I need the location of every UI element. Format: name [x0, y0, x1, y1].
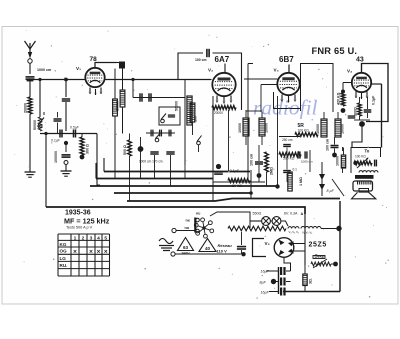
- label 16uF c: [261, 291, 270, 295]
- svg-text:10000: 10000: [316, 124, 320, 134]
- ground x66: [61, 165, 72, 176]
- junction node A: [64, 78, 68, 82]
- wire loop right: [213, 53, 242, 110]
- junction filter dot: [271, 279, 276, 284]
- terminal in1: [172, 228, 196, 232]
- wire x213 drop: [212, 96, 214, 201]
- resistor x290 vert: [288, 172, 292, 191]
- label 1M vert: [299, 177, 303, 186]
- junction T2 bottom: [332, 153, 337, 158]
- svg-text:250 cm: 250 cm: [282, 138, 293, 142]
- wire x115 lower: [114, 116, 116, 178]
- svg-text:6V. 0,3A: 6V. 0,3A: [284, 212, 298, 216]
- wire x154 drop: [154, 155, 156, 178]
- capacitor x66 lower: [62, 155, 71, 157]
- svg-text:300Ω: 300Ω: [354, 107, 358, 116]
- electrolytic 8uF: [319, 162, 335, 196]
- wire row y133: [40, 133, 97, 135]
- svg-text:6B7: 6B7: [279, 55, 294, 64]
- svg-text:500 KΩ: 500 KΩ: [283, 157, 295, 161]
- tube 78 (V1): [85, 68, 104, 87]
- capacitor pair bottom left: [298, 151, 313, 163]
- speaker cone: [352, 192, 376, 199]
- svg-text:To: To: [365, 149, 370, 154]
- capacitor 6A7 bias: [214, 172, 223, 174]
- box tone: [351, 148, 381, 174]
- label V5: [265, 241, 270, 246]
- wire x310 drop: [309, 150, 311, 172]
- svg-text:8µF: 8µF: [260, 281, 267, 285]
- box V5 left: [253, 239, 267, 257]
- bus y207: [46, 207, 305, 214]
- svg-text:16µF: 16µF: [261, 291, 270, 295]
- wire x133 drop: [132, 80, 134, 98]
- wire bus y80 mid: [105, 79, 212, 81]
- filter capacitor C3 16uF: [269, 288, 286, 296]
- wire tube78 top lead: [95, 63, 116, 68]
- svg-text:6A7: 6A7: [215, 55, 230, 64]
- junction 43 low: [341, 108, 346, 113]
- label Beur: [315, 254, 325, 259]
- tube 6A7 pins: [215, 96, 233, 104]
- junction 43 cathode: [359, 121, 365, 127]
- antenna terminal: [28, 59, 32, 63]
- label 6A7: [215, 55, 230, 64]
- scan speckles: [14, 30, 388, 299]
- svg-text:×: ×: [73, 248, 77, 255]
- wire bus y80 left: [33, 79, 86, 81]
- wire 6A7 grid lead: [224, 64, 226, 73]
- svg-text:radiofil: radiofil: [253, 96, 318, 120]
- wire x277 drop: [277, 96, 279, 186]
- svg-text:V₁: V₁: [76, 66, 81, 71]
- svg-text:3Ω.: 3Ω.: [309, 278, 313, 284]
- output transformer secondary: [358, 181, 371, 185]
- svg-text:1935-36: 1935-36: [65, 210, 91, 217]
- resistor feedback label: [336, 156, 340, 166]
- capacitor 43 bypass: [364, 95, 376, 112]
- grid cap blob: [116, 62, 125, 69]
- wire x248 drop: [248, 64, 253, 179]
- label MF 125kHz: [64, 217, 110, 226]
- switch bar: [194, 218, 196, 233]
- rheostat: [311, 259, 338, 268]
- svg-text:10000: 10000: [238, 123, 242, 133]
- resistor 50000 left: [33, 117, 42, 131]
- wire lamp2 out: [281, 221, 288, 226]
- wire x287: [286, 148, 288, 183]
- svg-text:Бекр: Бекр: [315, 254, 325, 259]
- capacitor heater: [237, 232, 246, 256]
- svg-text:V₁ V₂ V₃: V₁ V₂ V₃: [302, 231, 312, 235]
- wire row y97: [133, 97, 185, 99]
- label 550: [253, 212, 262, 216]
- capacitor 0.1uF row: [51, 130, 62, 143]
- wire into 6B7 y79: [244, 78, 278, 80]
- switch S4: [197, 136, 202, 153]
- label reseau: [217, 243, 233, 254]
- resistor 500k avc: [279, 153, 301, 161]
- svg-text:40: 40: [205, 246, 211, 251]
- switch S3: [155, 134, 160, 142]
- svg-text:×: ×: [97, 248, 101, 255]
- svg-text:nυ: nυ: [196, 212, 200, 216]
- junction 43 left: [341, 90, 345, 94]
- resistor 6A7 cathode: [212, 106, 236, 116]
- label 5R: [298, 123, 305, 129]
- resistor 3 ohm: [303, 274, 313, 286]
- svg-text:Tests 500 A p V: Tests 500 A p V: [66, 226, 93, 230]
- junction x40: [38, 78, 41, 81]
- tube 6B7 pins: [280, 95, 297, 103]
- junction y80 x133: [131, 78, 134, 81]
- resistor 50000 small: [341, 148, 345, 169]
- capacitor 100cm series: [195, 49, 209, 62]
- svg-text:0.5µF: 0.5µF: [70, 126, 80, 130]
- svg-text:1: 1: [74, 236, 77, 242]
- wire 43 top lead: [362, 64, 389, 122]
- wire x46 long drop: [45, 134, 47, 208]
- label To: [365, 149, 370, 154]
- label V1: [76, 66, 81, 71]
- rotary switch: [194, 218, 213, 238]
- wire 6B7 avc row: [279, 137, 300, 143]
- svg-text:4: 4: [97, 236, 100, 242]
- wire 25Z5 cathode: [284, 258, 291, 272]
- wire lamp1-lamp2: [271, 220, 273, 222]
- label imax: [66, 226, 93, 230]
- svg-text:ne: ne: [186, 219, 190, 223]
- junction x277 y186: [275, 184, 279, 188]
- wire x66 mid: [65, 102, 67, 131]
- svg-text:5: 5: [104, 236, 107, 242]
- ground (antenna): [25, 166, 36, 177]
- wire x1295: [129, 134, 131, 202]
- triangle 40: [199, 239, 216, 252]
- svg-text:V₃: V₃: [274, 68, 279, 73]
- box IF2 outline: [301, 64, 334, 113]
- wire y182 bus: [213, 181, 265, 183]
- wire x185 to bus: [184, 165, 186, 178]
- filter capacitor C2 8uF: [276, 278, 291, 286]
- wire below antenna cap: [29, 80, 31, 97]
- capacitor 0.5uF row: [70, 126, 80, 138]
- capacitor padder: [168, 115, 175, 117]
- svg-text:43: 43: [356, 57, 364, 64]
- resistor 420k: [337, 92, 345, 106]
- wire T2 bottom: [334, 137, 336, 153]
- oscillator coil L2: [113, 99, 118, 116]
- wire x305 drop: [304, 214, 306, 265]
- resistor 300 ohm: [80, 137, 90, 155]
- antenna: [25, 41, 36, 59]
- capacitor 100cm mid: [250, 154, 264, 166]
- wire x251 drop: [249, 170, 253, 198]
- bottom rail: [283, 291, 340, 293]
- capacitor x57 upper: [54, 112, 62, 134]
- capacitor right 01: [283, 168, 297, 173]
- svg-text:no: no: [185, 226, 190, 230]
- wire x185 drop: [184, 80, 186, 166]
- svg-text:0.1µF: 0.1µF: [51, 139, 61, 143]
- wire x97 drop: [97, 134, 100, 186]
- output transformer core: [355, 175, 374, 179]
- bus y186: [90, 185, 278, 187]
- wire diag: [332, 179, 344, 196]
- capacitor bottom a: [150, 152, 158, 154]
- watermark radiofil: [253, 96, 318, 120]
- label 78: [90, 56, 98, 63]
- switch S2: [161, 114, 166, 123]
- speaker body: [353, 181, 373, 192]
- bus y178: [96, 178, 213, 180]
- wire x66 to gnd: [65, 165, 67, 167]
- wire x96 up: [95, 163, 97, 179]
- svg-text:0.1µF: 0.1µF: [372, 95, 376, 105]
- wire filament to bus: [321, 228, 337, 230]
- capacitor C a: [140, 93, 142, 101]
- box under 6B7: [274, 90, 301, 109]
- wire T1 bottoms: [246, 136, 262, 145]
- resistor 100k 5R: [295, 133, 318, 137]
- svg-text:1000 cm 170 cm: 1000 cm 170 cm: [139, 160, 163, 164]
- wire x340 drop: [339, 201, 341, 292]
- svg-text:1 MΩ: 1 MΩ: [299, 177, 303, 186]
- junction tone: [353, 161, 357, 165]
- wire switch top: [210, 212, 250, 228]
- wire x3425: [342, 147, 344, 173]
- IF transformer T1 unit b: [259, 118, 269, 136]
- wire x259: [258, 145, 260, 173]
- box padder: [159, 107, 180, 125]
- coil L5: [190, 103, 195, 122]
- tube 25Z5 (V5): [274, 238, 294, 258]
- label 16uF a: [261, 270, 270, 274]
- wire 25Z5 anodes: [294, 244, 306, 252]
- resistor 300ohm 43: [354, 103, 362, 116]
- wire filter bus: [278, 267, 280, 294]
- label 25Z5: [309, 242, 327, 249]
- junction dot x82: [80, 155, 85, 160]
- wire x82 top: [81, 134, 83, 138]
- svg-text:LG: LG: [60, 256, 67, 261]
- IF transformer T2 unit b: [335, 119, 345, 137]
- wire 43 cathode down: [352, 126, 362, 148]
- label 100k tone: [355, 155, 366, 159]
- lamp 1: [262, 217, 271, 226]
- svg-text:20000: 20000: [214, 111, 223, 115]
- resistor 500 ohm: [123, 140, 131, 156]
- wire x228 drop: [228, 110, 230, 172]
- wire x104 up: [103, 158, 105, 172]
- wire to ground (antenna): [29, 114, 31, 166]
- coil L3 bar: [116, 90, 125, 111]
- svg-text:×: ×: [104, 248, 108, 255]
- label 100000 vertical: [54, 151, 58, 163]
- lamp 2: [272, 217, 281, 226]
- resistor 20000 ohm antenna: [24, 97, 33, 114]
- wire x66 seg2: [65, 143, 67, 152]
- label V4: [347, 69, 352, 74]
- label 1000 cm (antenna cap): [37, 68, 51, 72]
- svg-text:500 Ω: 500 Ω: [123, 145, 127, 155]
- tube 6B7 (V3): [277, 73, 299, 95]
- capacitor x66: [62, 99, 70, 101]
- svg-text:V₄ V₃ V₁: V₄ V₃ V₁: [289, 230, 299, 234]
- potentiometer tone: [354, 157, 372, 168]
- title FNR 65 U.: [312, 46, 358, 56]
- wire 43 bypass: [354, 97, 370, 120]
- wire antenna down: [29, 63, 31, 74]
- svg-text:V₂: V₂: [208, 68, 213, 73]
- svg-text:3: 3: [90, 236, 93, 242]
- resistor 50k: [228, 179, 250, 189]
- svg-text:63: 63: [183, 245, 189, 250]
- svg-text:100 cm: 100 cm: [250, 154, 254, 166]
- label V3: [274, 68, 279, 73]
- label 6V03A: [284, 212, 298, 216]
- tube 43 (V4): [352, 73, 371, 92]
- wire mains bottom: [175, 253, 241, 255]
- junction y133 x46: [44, 132, 47, 135]
- junction x259: [257, 173, 262, 178]
- wire x140 drop: [140, 137, 142, 178]
- wire x1225: [122, 69, 124, 134]
- svg-text:100000: 100000: [54, 151, 58, 163]
- ballast resistor: [228, 226, 286, 231]
- svg-text:KG: KG: [60, 242, 67, 247]
- tube 6A7 (V2): [212, 73, 235, 96]
- wire T2 tops: [324, 112, 338, 119]
- svg-text:110 V: 110 V: [217, 249, 228, 254]
- junction big x140: [138, 146, 144, 152]
- junction filament: [336, 226, 341, 231]
- wire x115 drop: [114, 69, 116, 100]
- svg-text:100 cm: 100 cm: [195, 58, 207, 62]
- svg-text:550Ω: 550Ω: [253, 212, 262, 216]
- label 8uF b: [260, 281, 267, 285]
- wire osc cap loop: [178, 53, 203, 80]
- capacitor tone: [375, 160, 377, 167]
- svg-text:A: A: [301, 212, 304, 216]
- bus y171: [104, 171, 250, 173]
- svg-text:300 Ω: 300 Ω: [86, 144, 90, 154]
- wire x40 drop: [39, 80, 41, 118]
- band table: [58, 234, 110, 276]
- svg-text:420 KΩ: 420 KΩ: [337, 92, 341, 105]
- svg-text:2: 2: [82, 236, 85, 242]
- svg-text:2MΩ: 2MΩ: [270, 167, 274, 175]
- svg-text:50000: 50000: [33, 120, 37, 130]
- svg-text:V₄: V₄: [347, 69, 352, 74]
- resistor small above: [313, 256, 325, 259]
- capacitor T2 right: [348, 116, 356, 118]
- wire y84 into 6B7: [261, 85, 278, 113]
- triangle 63: [178, 238, 194, 256]
- tube 78 pins: [88, 88, 103, 96]
- capacitor 100cm T2: [326, 139, 339, 151]
- svg-text:10000: 10000: [265, 123, 269, 133]
- svg-text:25Z5: 25Z5: [309, 242, 327, 249]
- trimmer row: [146, 130, 175, 137]
- switch S1: [38, 112, 44, 128]
- svg-text:Réseau: Réseau: [218, 243, 233, 248]
- wire T1 tops: [246, 110, 262, 118]
- wire x305 low: [304, 265, 306, 292]
- wire to lamp1: [250, 220, 262, 222]
- tube 43 pins: [354, 92, 369, 100]
- filament coil b: [301, 227, 321, 235]
- junction x66 y143: [64, 141, 68, 145]
- wire x66 drop: [65, 80, 67, 98]
- resistor 2M vertical: [265, 152, 274, 186]
- svg-text:V₅: V₅: [265, 241, 270, 246]
- svg-text:FNR 65 U.: FNR 65 U.: [312, 46, 358, 56]
- svg-text:×: ×: [89, 248, 93, 255]
- svg-text:8 µF: 8 µF: [327, 189, 335, 193]
- bus y201: [127, 199, 340, 202]
- svg-text:10000: 10000: [116, 101, 120, 111]
- wire x259 low: [258, 176, 260, 183]
- bus y193: [114, 192, 251, 194]
- svg-text:OG: OG: [60, 249, 68, 254]
- svg-text:10000: 10000: [341, 124, 345, 134]
- svg-text:10000: 10000: [336, 156, 340, 166]
- svg-text:20000: 20000: [24, 103, 28, 113]
- svg-text:RU.: RU.: [60, 263, 68, 268]
- svg-text:1000 cm: 1000 cm: [37, 68, 51, 72]
- IF transformer T1 unit a: [238, 118, 249, 136]
- svg-text:100 KΩ: 100 KΩ: [355, 155, 366, 159]
- label a node: [301, 212, 304, 216]
- label nu: [196, 212, 200, 216]
- label 6B7: [279, 55, 294, 64]
- label 43: [356, 57, 364, 64]
- terminal ring x66: [64, 161, 68, 165]
- svg-text:0.1: 0.1: [293, 168, 298, 172]
- label 100k: [298, 129, 310, 133]
- svg-text:MF = 125 kHz: MF = 125 kHz: [64, 217, 110, 226]
- svg-text:50000: 50000: [175, 101, 179, 111]
- label 0.1uF script: [230, 169, 240, 173]
- terminal no: [185, 226, 200, 233]
- label 50000 osc: [175, 101, 179, 111]
- capacitor bottom b: [166, 152, 174, 154]
- terminal ne: [186, 218, 200, 222]
- wire x192 lower: [192, 122, 194, 135]
- wire 43 left: [343, 83, 352, 92]
- mains sine symbol: [159, 239, 174, 251]
- label 1935-36: [65, 210, 91, 217]
- output transformer primary: [359, 171, 378, 173]
- oscillator coil L4: [187, 96, 198, 125]
- wire x170 drop: [170, 155, 172, 186]
- svg-text:100 cm: 100 cm: [326, 139, 330, 151]
- capacitor C b: [149, 93, 151, 101]
- filter capacitor C1 16uF: [266, 267, 291, 275]
- filament coil a: [288, 227, 299, 234]
- svg-text:1000 cm: 1000 cm: [301, 160, 313, 164]
- wire 43 plate lead: [371, 84, 382, 148]
- capacitor avc: [283, 145, 291, 147]
- label V2: [208, 68, 213, 73]
- capacitor antenna series: [26, 77, 35, 82]
- terminal in2: [171, 252, 175, 256]
- label 1000cm 170cm: [139, 160, 163, 164]
- wire 6B7 grid lead: [288, 65, 290, 74]
- junction x218: [216, 164, 221, 169]
- IF transformer T2 unit a: [316, 119, 327, 137]
